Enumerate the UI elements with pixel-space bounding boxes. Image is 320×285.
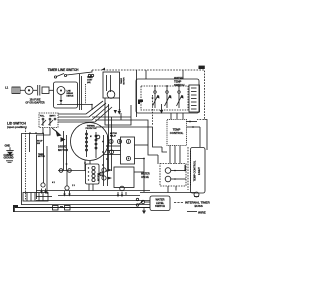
svg-text:FULL: FULL bbox=[40, 116, 45, 118]
legend internal timer buss bbox=[174, 200, 211, 214]
svg-text:MOTOR: MOTOR bbox=[38, 156, 45, 158]
svg-text:WIRE: WIRE bbox=[198, 210, 206, 214]
timer line switch contact bbox=[54, 70, 92, 78]
small text block lower bbox=[38, 154, 45, 158]
center wires to valve area bbox=[121, 113, 167, 192]
svg-text:TIMER LINE SWITCH: TIMER LINE SWITCH bbox=[48, 68, 80, 72]
lid switch bbox=[39, 113, 58, 128]
line break device box bbox=[54, 82, 78, 108]
svg-text:CABINET: CABINET bbox=[4, 154, 15, 157]
svg-text:MOTOR: MOTOR bbox=[124, 77, 126, 85]
temp control light box bbox=[191, 148, 206, 194]
connector boxes on bus bbox=[53, 206, 71, 211]
circled terminal A bbox=[36, 181, 56, 197]
svg-text:(4A): (4A) bbox=[87, 81, 91, 84]
corner tick bbox=[13, 205, 18, 212]
timer motor TM bbox=[107, 77, 125, 98]
svg-text:SWITCH: SWITCH bbox=[155, 204, 165, 208]
water level contacts bbox=[136, 198, 150, 214]
drive motor bbox=[71, 123, 109, 161]
svg-text:BUSS: BUSS bbox=[195, 204, 203, 208]
svg-text:EMPTY: EMPTY bbox=[50, 116, 57, 118]
svg-text:TEMP: TEMP bbox=[174, 79, 182, 83]
label outside light box bbox=[185, 164, 187, 171]
arrow near lid switch bbox=[52, 128, 62, 137]
svg-text:WATER: WATER bbox=[174, 76, 183, 80]
label L1 bbox=[5, 86, 9, 90]
relay box bbox=[103, 137, 135, 164]
wire risers left-mid bbox=[44, 90, 104, 194]
connector bars bbox=[38, 85, 40, 96]
wires temp control top/bottom bbox=[170, 113, 183, 164]
water level switch bbox=[150, 196, 170, 211]
svg-text:MOTOR: MOTOR bbox=[98, 173, 100, 181]
arrows below timer motor bbox=[114, 98, 121, 115]
small text under lid switch bbox=[37, 141, 43, 145]
wire risers into temp switch bbox=[137, 70, 184, 117]
svg-text:TEMP CONTROL: TEMP CONTROL bbox=[192, 160, 196, 181]
svg-text:L1: L1 bbox=[5, 86, 9, 90]
fuse bbox=[25, 86, 33, 94]
svg-text:SW: SW bbox=[37, 143, 40, 145]
wires below motor bbox=[58, 131, 90, 172]
relay lower box bbox=[98, 167, 134, 188]
wire top bus bbox=[92, 70, 205, 120]
svg-text:1 3: 1 3 bbox=[72, 185, 76, 187]
svg-text:(open position): (open position) bbox=[7, 125, 27, 129]
lamp bbox=[194, 192, 199, 197]
water temp switch box bbox=[136, 76, 199, 113]
terminal block bbox=[42, 87, 49, 94]
label small 3line bbox=[87, 77, 93, 84]
right of motor risers bbox=[109, 104, 114, 171]
label TIMER LINE SWITCH bbox=[48, 68, 80, 72]
motor windings bbox=[86, 130, 100, 158]
junction column bbox=[102, 135, 108, 186]
bottom terminal with arrows bbox=[117, 186, 126, 197]
lid switch label bbox=[7, 121, 27, 129]
svg-text:CONTROL: CONTROL bbox=[170, 131, 184, 135]
GND bbox=[5, 144, 14, 156]
wire bbox=[105, 98, 131, 125]
motor relay label bbox=[110, 133, 117, 137]
temp control box bbox=[167, 120, 187, 146]
arrow down mid-right bbox=[160, 104, 163, 114]
wire staircase lid switch to center bbox=[92, 95, 162, 155]
svg-text:VALVE: VALVE bbox=[141, 176, 149, 179]
svg-text:4 2: 4 2 bbox=[52, 181, 56, 184]
timer box U1 bbox=[88, 68, 119, 99]
drive motor label bbox=[58, 137, 68, 152]
wire staircase down-left to lid switch bbox=[57, 101, 112, 122]
terminal block below motor bbox=[86, 164, 104, 191]
svg-text:TIMER: TIMER bbox=[185, 164, 187, 171]
right vertical wires bbox=[188, 120, 207, 191]
node top-right bbox=[199, 66, 205, 69]
label fuse note bbox=[25, 98, 44, 104]
wire bbox=[33, 89, 37, 91]
circled terminal B bbox=[63, 185, 75, 197]
wire risers at box right bbox=[80, 74, 86, 110]
connector J1 right bbox=[189, 85, 200, 112]
wire bbox=[20, 89, 25, 91]
svg-text:OF OR ADAPTER: OF OR ADAPTER bbox=[25, 101, 44, 104]
bottom buses bbox=[14, 191, 150, 212]
start capacitor bbox=[23, 193, 48, 202]
svg-text:RELAY: RELAY bbox=[110, 134, 117, 137]
svg-text:GND: GND bbox=[5, 144, 11, 148]
water temp switch contacts bbox=[141, 85, 188, 110]
svg-text:LIGHT: LIGHT bbox=[197, 167, 201, 175]
corner mark bbox=[138, 100, 143, 105]
wires temp control right bbox=[187, 121, 201, 128]
cabinet ground label bbox=[4, 154, 15, 163]
water valve bbox=[141, 164, 186, 193]
svg-text:GROUND: GROUND bbox=[4, 158, 14, 160]
svg-text:PROTECTOR: PROTECTOR bbox=[86, 128, 98, 130]
svg-text:DEVICE: DEVICE bbox=[67, 96, 75, 98]
plug bbox=[12, 87, 20, 94]
svg-text:M: M bbox=[90, 136, 92, 138]
left riser wires bbox=[22, 128, 51, 205]
wire lamp bus bbox=[140, 192, 195, 194]
